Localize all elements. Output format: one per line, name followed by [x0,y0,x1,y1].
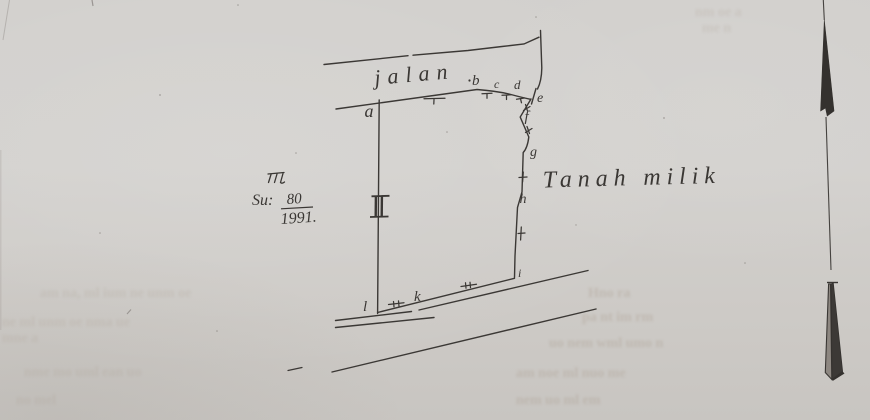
svg-text:d: d [514,77,521,92]
svg-text:i: i [518,266,521,280]
svg-text:mne a: mne a [2,331,38,346]
svg-text:k: k [414,289,421,305]
svg-text:nm oe a: nm oe a [695,5,742,20]
svg-text:c: c [494,77,500,91]
svg-text:ne ml unm oe nma ue: ne ml unm oe nma ue [2,315,130,330]
svg-text:l: l [363,299,367,315]
svg-text:nme mo uml ean uo: nme mo uml ean uo [24,365,141,380]
svg-text:a: a [365,101,374,121]
svg-text:f: f [525,109,531,125]
svg-text:1991.: 1991. [280,209,317,228]
svg-text:Su:: Su: [252,192,273,209]
svg-text:e: e [537,91,543,106]
svg-text:80: 80 [286,191,303,208]
svg-text:b: b [472,73,480,89]
svg-text:Hno ra: Hno ra [588,286,630,301]
svg-text:me n: me n [702,21,731,36]
svg-text:nem uo ml em: nem uo ml em [516,393,601,408]
svg-text:am noe ml nuo me: am noe ml nuo me [516,366,626,381]
svg-text:uo nem wml umo n: uo nem wml umo n [549,336,664,351]
svg-text:h: h [520,192,527,207]
svg-text:am na, ml ium ne unm oe: am na, ml ium ne unm oe [40,286,191,301]
svg-text:jalan: jalan [370,58,455,90]
svg-text:pa nt im rm: pa nt im rm [582,310,654,325]
svg-text:no mel: no mel [16,393,56,408]
svg-text:g: g [530,145,537,160]
svg-text:Tanah milik: Tanah milik [542,163,721,194]
